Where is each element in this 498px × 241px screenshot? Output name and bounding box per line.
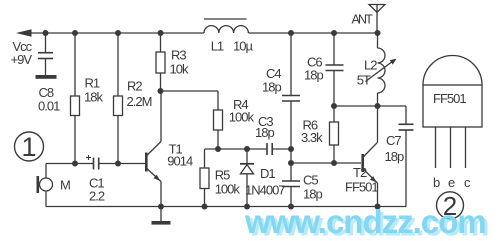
svg-text:18p: 18p [303,186,322,201]
svg-text:5T: 5T [357,72,371,87]
capacitor C5 [282,163,300,207]
node: R1 junction on rail [72,30,78,36]
svg-text:R2: R2 [127,79,142,94]
svg-text:3.3k: 3.3k [301,130,323,145]
svg-text:18p: 18p [262,80,281,95]
svg-text:9014: 9014 [167,153,193,168]
node: R3/R4/T1-collector junction [158,88,164,94]
transistor T1 (9014) [146,91,161,207]
node: R2 junction on rail [115,30,121,36]
ground (below C8) [36,75,57,79]
svg-text:www.cndzz.com: www.cndzz.com [244,203,486,240]
svg-text:10µ: 10µ [233,39,253,54]
label ANT [352,12,374,26]
svg-text:D1: D1 [260,166,275,181]
watermark www.cndzz.com [244,203,489,241]
resistor R4 [214,91,223,149]
node: C5 top junction [288,160,294,166]
svg-text:100k: 100k [229,110,255,125]
label R5 100k [215,167,241,196]
wire: T1 base net [46,163,145,165]
svg-text:b: b [433,175,440,190]
node: D1 bottom junction [244,204,250,210]
svg-text:e: e [448,175,455,190]
transistor T2 (FF501) [363,106,378,207]
wire: C6/L2/C7 mid net [334,106,406,124]
node: R6 bottom junction [331,160,337,166]
label M (microphone) [60,178,70,193]
label L2 5T [357,58,378,88]
label C4 18p [262,66,281,95]
pin label e [448,175,455,190]
capacitor C8 [38,33,53,75]
svg-text:+9V: +9V [11,52,33,67]
wire: R3 bottom to R4 top [161,90,219,92]
Vcc supply arrow [16,29,32,36]
resistor R3 [156,33,165,91]
node: T2 emitter junction [375,204,381,210]
callout digit 2 [443,191,457,221]
svg-text:c: c [464,175,471,190]
pin label b [433,175,440,190]
svg-text:FF501: FF501 [345,180,378,195]
svg-text:2.2M: 2.2M [127,94,152,109]
svg-text:1N4007: 1N4007 [245,183,285,198]
label L1 10u [211,39,254,54]
label R3 10k [170,48,189,77]
capacitor C1 (electrolytic) [86,155,99,170]
resistor R5 [200,149,209,207]
label R6 3.3k [301,118,323,146]
capacitor C6 [326,33,344,106]
resistor R6 [330,106,339,163]
resistor R2 [114,33,123,164]
wire: ground bottom rail [46,206,406,208]
svg-text:M: M [60,178,70,193]
svg-text:R1: R1 [85,76,100,91]
resistor R1 [71,33,80,164]
svg-text:100k: 100k [215,181,241,196]
svg-text:L1: L1 [211,39,224,54]
node: ANT junction on rail [375,30,381,36]
node: R3 junction on rail [158,30,164,36]
svg-text:FF501: FF501 [433,91,466,106]
wire: +9V top rail left segment [28,32,204,34]
capacitor C4 [282,33,300,149]
svg-text:C7: C7 [386,133,401,148]
svg-text:R5: R5 [215,167,230,182]
node: R2 bottom junction [115,161,121,167]
label C3 18p [255,114,274,140]
node: C5 bottom junction [288,204,294,210]
svg-text:10k: 10k [170,61,189,76]
capacitor C7 [399,124,414,206]
svg-text:18p: 18p [385,149,404,164]
node: R5 bottom junction [202,204,208,210]
microphone M [38,164,53,207]
callout circle 2 [437,192,464,219]
capacitor C3 [267,143,272,155]
svg-text:18p: 18p [255,125,274,140]
wire: +9V top rail right segment [249,32,379,34]
node: R1 bottom junction [72,161,78,167]
inductor L2 (variable, 5T) [366,33,397,106]
inductor L1 [204,19,248,33]
node: T1 emitter junction [158,204,164,210]
node: C4 junction on rail [288,30,294,36]
label R2 2.2M [127,79,152,109]
wire: R5/R4/D1/C3 horizontal net [205,148,292,150]
ground (T1 emitter) [152,207,171,225]
node: C3/C4 junction [288,146,294,152]
diode D1 [240,149,254,207]
label FF501 (package) [433,91,466,106]
svg-text:L2: L2 [364,58,377,73]
svg-text:18p: 18p [304,68,323,83]
svg-text:C5: C5 [303,173,318,188]
svg-text:T2: T2 [353,165,367,180]
node: C6 junction on rail [331,30,337,36]
wire: T2 base net [291,162,361,164]
label C5 18p [303,173,322,202]
label D1 1N4007 [245,166,285,198]
label R4 100k [229,97,255,125]
node: C6 bottom junction [331,103,337,109]
svg-text:0.01: 0.01 [38,99,60,114]
label C1 2.2 [89,176,105,204]
svg-text:1: 1 [21,132,36,162]
transistor package FF501 (TO-92 outline) [423,56,482,169]
svg-text:2.2: 2.2 [89,189,105,204]
svg-text:ANT: ANT [352,12,374,26]
node: R4 bottom junction [215,146,221,152]
node: L2 bottom junction [375,103,381,109]
label T2 FF501 [345,165,378,195]
label R1 18k [84,76,103,105]
callout circle 1 [15,132,44,161]
label C7 18p [385,133,404,164]
node: D1 top junction [244,146,250,152]
pin label c [464,175,471,190]
node: C8 junction on rail [43,30,49,36]
label Vcc +9V [11,39,33,67]
antenna ANT [369,5,385,34]
wire: C4 junction down to T2 base net [290,149,292,163]
svg-text:C4: C4 [266,66,281,81]
label C6 18p [304,55,323,83]
callout digit 1 [21,132,36,162]
label T1 9014 [167,141,193,168]
label C8 0.01 [38,85,60,114]
svg-text:18k: 18k [84,90,103,105]
